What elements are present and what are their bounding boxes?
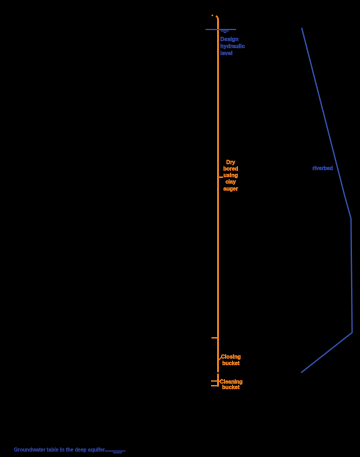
svg-text:bucket: bucket <box>222 385 240 391</box>
svg-text:riverbed: riverbed <box>313 166 333 172</box>
svg-text:bored: bored <box>223 167 238 173</box>
svg-text:Design: Design <box>220 37 239 43</box>
svg-text:level: level <box>220 51 233 57</box>
svg-text:Closing: Closing <box>221 354 241 360</box>
svg-text:bucket: bucket <box>222 361 240 367</box>
svg-text:hydraulic: hydraulic <box>220 44 244 50</box>
svg-text:using: using <box>224 173 238 179</box>
svg-text:Dry: Dry <box>226 160 235 166</box>
svg-text:auger: auger <box>223 186 239 192</box>
svg-text:Groundwater table in the deep: Groundwater table in the deep aquifer <box>14 447 105 453</box>
svg-text:clay: clay <box>225 180 236 186</box>
